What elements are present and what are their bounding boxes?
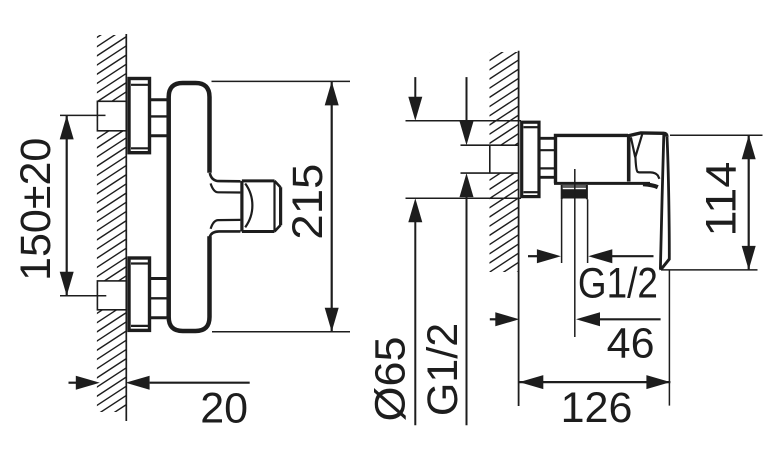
svg-text:215: 215 [284,164,332,240]
svg-text:126: 126 [561,384,633,432]
svg-text:G1/2: G1/2 [419,323,467,416]
svg-text:114: 114 [698,162,746,237]
svg-text:150±20: 150±20 [12,138,60,281]
svg-text:46: 46 [607,320,655,368]
svg-text:Ø65: Ø65 [367,337,415,422]
svg-text:G1/2: G1/2 [578,259,658,307]
svg-text:20: 20 [200,384,248,432]
